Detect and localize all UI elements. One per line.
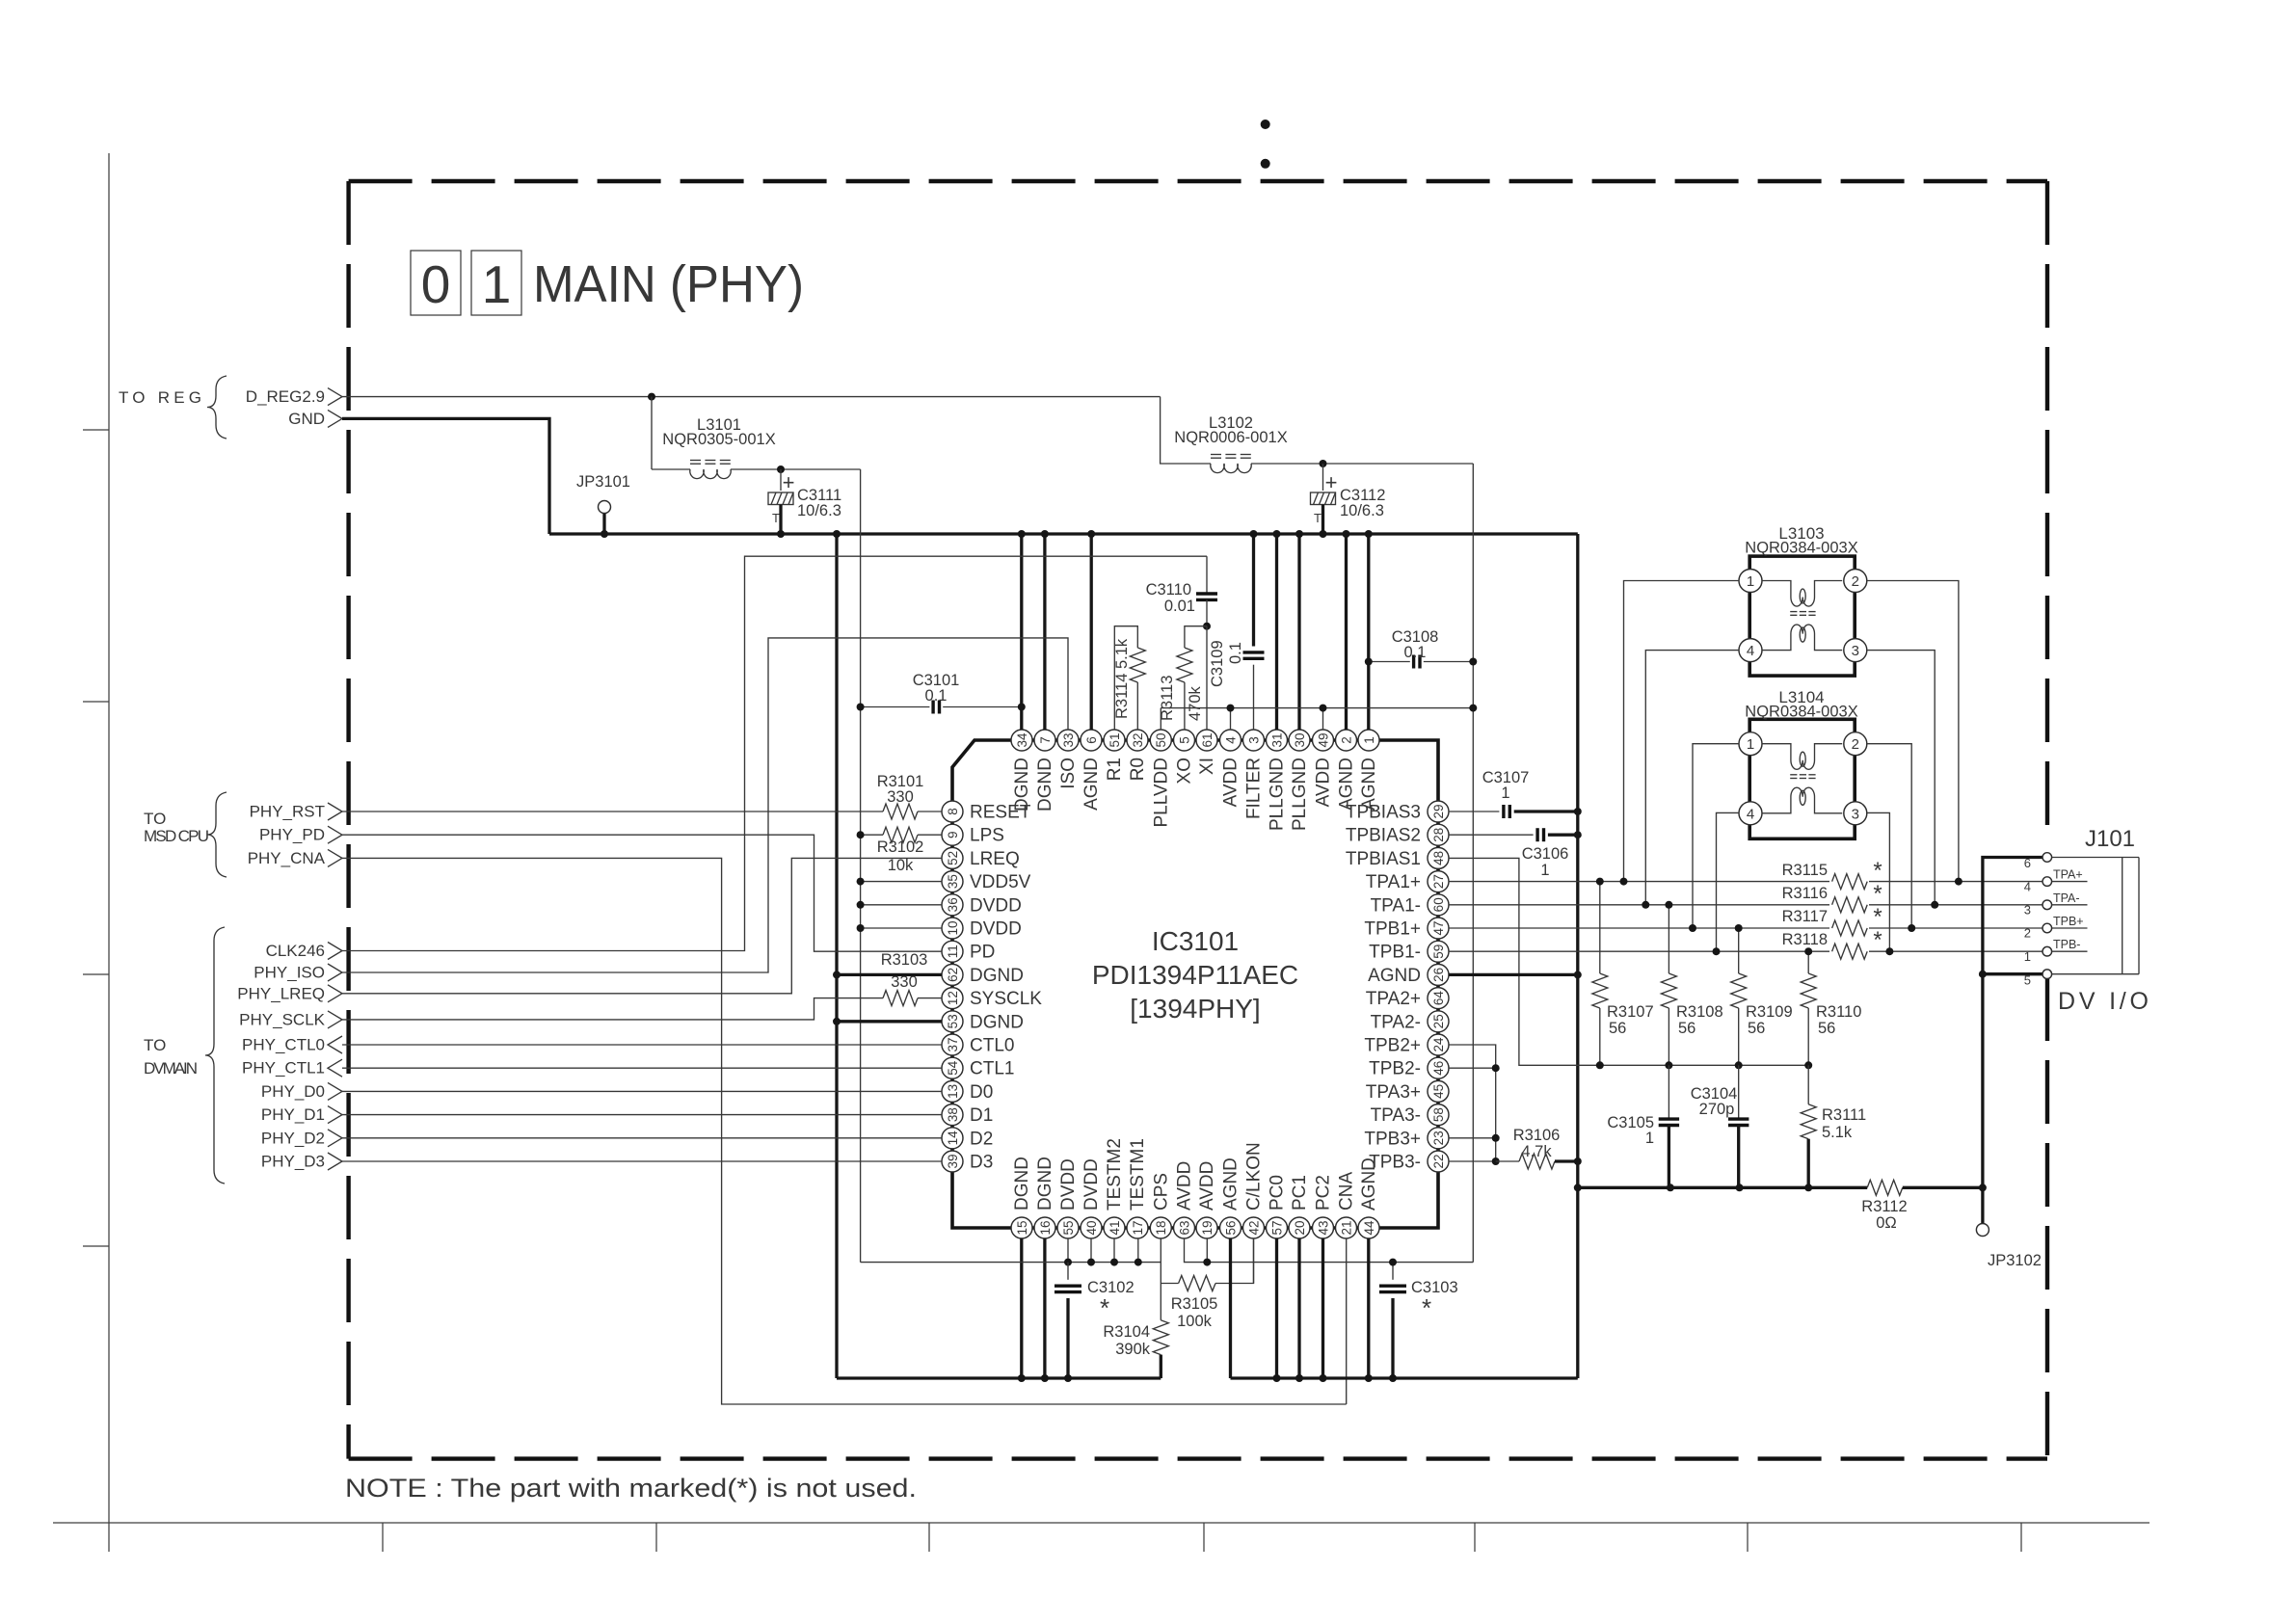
svg-text:33: 33 xyxy=(1061,732,1076,747)
junction pin17 xyxy=(1135,1259,1142,1266)
resistor R3103 330 xyxy=(342,951,942,1020)
junction L3104 pin1 TPB+ xyxy=(1689,924,1696,932)
svg-text:CNA: CNA xyxy=(1337,1172,1357,1211)
svg-text:PC2: PC2 xyxy=(1314,1175,1334,1211)
wire D_REG2.9 rail xyxy=(342,396,1161,398)
wire L3103 pin2 tap xyxy=(1867,581,1959,882)
svg-text:LREQ: LREQ xyxy=(970,849,1020,869)
svg-text:30: 30 xyxy=(1293,732,1307,747)
junction pin26 AGND xyxy=(1574,971,1582,978)
capacitor C3107 1 (TPBIAS3) xyxy=(1449,769,1578,818)
pin 63 AVDD (IC3101 bottom) xyxy=(1174,1161,1195,1238)
svg-text:20: 20 xyxy=(1293,1220,1307,1235)
svg-text:AVDD: AVDD xyxy=(1175,1161,1195,1211)
pin 28 TPBIAS2 (IC3101 right) xyxy=(1346,824,1449,846)
svg-text:D_REG2.9: D_REG2.9 xyxy=(246,387,325,406)
junction D_REG2.9 to L3101 xyxy=(648,393,655,401)
svg-text:AVDD: AVDD xyxy=(1197,1161,1217,1211)
svg-text:DGND: DGND xyxy=(970,966,1024,986)
svg-text:T: T xyxy=(1314,511,1322,525)
svg-text:R3102: R3102 xyxy=(877,838,924,856)
svg-text:AVDD: AVDD xyxy=(1221,758,1241,807)
svg-text:4: 4 xyxy=(1223,736,1238,744)
capacitor C3111 10/6.3 xyxy=(768,469,841,534)
pin 56 AGND (IC3101 bottom) xyxy=(1220,1157,1241,1238)
pin 1 AGND (IC3101 top) xyxy=(1358,730,1379,811)
svg-text:*: * xyxy=(1422,1293,1431,1322)
svg-text:T: T xyxy=(772,511,780,525)
port CLK246 xyxy=(266,942,342,960)
capacitor C3112 10/6.3 xyxy=(1311,464,1386,534)
resistor R3110 56 xyxy=(1801,951,1861,1065)
svg-text:C3103: C3103 xyxy=(1411,1279,1458,1296)
junction shield rail left xyxy=(1574,1184,1582,1191)
pin 9 LPS (IC3101 left) xyxy=(942,824,1004,846)
wire DGND pin53 xyxy=(837,1020,942,1023)
svg-text:R3117: R3117 xyxy=(1782,908,1828,925)
wire PHY_D1 to pin38 xyxy=(342,1114,942,1116)
svg-text:TPB+: TPB+ xyxy=(2053,915,2084,928)
pin 21 CNA (IC3101 bottom) xyxy=(1336,1172,1357,1238)
svg-text:1: 1 xyxy=(1362,736,1376,744)
svg-text:TPB1+: TPB1+ xyxy=(1364,919,1421,940)
svg-text:R3103: R3103 xyxy=(881,951,928,969)
svg-text:3: 3 xyxy=(1246,736,1261,744)
wire DGND bottom rail left xyxy=(837,1376,1161,1379)
svg-text:PHY_ISO: PHY_ISO xyxy=(254,964,325,982)
svg-text:41: 41 xyxy=(1108,1220,1122,1235)
svg-text:21: 21 xyxy=(1339,1220,1353,1235)
svg-text:25: 25 xyxy=(1431,1014,1446,1028)
pin 44 AGND (IC3101 bottom) xyxy=(1358,1157,1379,1238)
svg-text:PLLGND: PLLGND xyxy=(1268,758,1288,831)
svg-text:R3116: R3116 xyxy=(1782,885,1828,902)
wire DGND pin62 xyxy=(837,973,942,976)
wire AGND pin56 drop xyxy=(1229,1238,1232,1378)
svg-text:RESET: RESET xyxy=(970,803,1031,823)
svg-text:R3109: R3109 xyxy=(1746,1003,1793,1021)
svg-text:GND: GND xyxy=(288,410,325,428)
pin 62 DGND (IC3101 left) xyxy=(942,964,1024,986)
svg-text:*: * xyxy=(1873,858,1882,884)
svg-text:58: 58 xyxy=(1431,1107,1446,1122)
svg-text:4.7k: 4.7k xyxy=(1521,1143,1552,1160)
svg-text:23: 23 xyxy=(1431,1131,1446,1145)
port PHY_CTL1 xyxy=(242,1059,342,1078)
junction R3107 bias line xyxy=(1596,1061,1604,1069)
svg-text:R3105: R3105 xyxy=(1171,1295,1218,1313)
wire AGND bottom rail right xyxy=(1231,1376,1578,1379)
svg-text:CLK246: CLK246 xyxy=(266,942,325,960)
pin 49 AVDD (IC3101 top) xyxy=(1313,730,1334,807)
junction pin10 DVDD xyxy=(857,924,865,932)
svg-text:C3110: C3110 xyxy=(1146,581,1191,599)
svg-text:52: 52 xyxy=(946,851,960,865)
svg-text:*: * xyxy=(1100,1293,1109,1322)
port PHY_PD xyxy=(259,826,342,844)
resistor R3108 56 xyxy=(1661,905,1722,1066)
svg-text:17: 17 xyxy=(1131,1220,1145,1235)
svg-text:0.1: 0.1 xyxy=(925,687,948,705)
svg-text:CTL0: CTL0 xyxy=(970,1036,1014,1056)
svg-text:0Ω: 0Ω xyxy=(1876,1214,1897,1232)
junction C3103 rail xyxy=(1389,1374,1397,1382)
junction C3108 pin1 riser xyxy=(1365,658,1373,666)
svg-text:28: 28 xyxy=(1431,828,1446,842)
junction C3102 rail xyxy=(1064,1374,1072,1382)
svg-text:[1394PHY]: [1394PHY] xyxy=(1130,994,1260,1024)
pin 50 PLLVDD (IC3101 top) xyxy=(1150,730,1171,828)
svg-text:56: 56 xyxy=(1609,1020,1626,1037)
svg-text:49: 49 xyxy=(1316,732,1330,747)
svg-text:DVDD: DVDD xyxy=(970,895,1022,916)
svg-text:1: 1 xyxy=(482,254,512,314)
svg-text:R3112: R3112 xyxy=(1861,1198,1907,1215)
pin 26 AGND (IC3101 right) xyxy=(1368,964,1449,986)
svg-text:R3108: R3108 xyxy=(1676,1003,1723,1021)
junction L3103 pin2 TPA+ xyxy=(1955,878,1962,886)
svg-text:AVDD: AVDD xyxy=(1314,758,1334,807)
svg-text:5: 5 xyxy=(2024,973,2031,988)
svg-text:3: 3 xyxy=(1852,643,1859,659)
wire PLLVDD pin50 xyxy=(1160,708,1161,730)
resistor R3111 5.1k xyxy=(1801,1065,1866,1187)
svg-text:2: 2 xyxy=(2024,926,2031,941)
junction AVDD line right xyxy=(1469,705,1477,712)
wire AGND pin1 riser xyxy=(1367,534,1370,730)
svg-text:DGND: DGND xyxy=(1035,758,1055,811)
svg-text:56: 56 xyxy=(1818,1020,1835,1037)
junction pin23 xyxy=(1492,1134,1500,1142)
pin 17 TESTM1 (IC3101 bottom) xyxy=(1127,1138,1148,1238)
wire TPB3- pin22 stub xyxy=(1449,1160,1496,1162)
pin 47 TPB1+ (IC3101 right) xyxy=(1364,918,1449,940)
svg-text:IC3101: IC3101 xyxy=(1152,926,1239,956)
svg-text:C/LKON: C/LKON xyxy=(1244,1142,1265,1211)
pin 24 TPB2+ (IC3101 right) xyxy=(1364,1034,1449,1056)
wire AVDD-PLLVDD line xyxy=(1161,707,1473,709)
wire AVDD vertical distribution xyxy=(1472,464,1474,1263)
svg-text:55: 55 xyxy=(1061,1220,1076,1235)
pin 11 PD (IC3101 left) xyxy=(942,941,995,963)
junction C3103 AVDD line xyxy=(1389,1259,1397,1266)
svg-text:PHY_CNA: PHY_CNA xyxy=(248,849,326,867)
junction pin22 xyxy=(1492,1157,1500,1165)
pin 15 DGND (IC3101 bottom) xyxy=(1011,1157,1032,1238)
svg-text:56: 56 xyxy=(1748,1020,1765,1037)
svg-text:37: 37 xyxy=(946,1037,960,1051)
port PHY_SCLK xyxy=(239,1010,342,1028)
wire VDD5V pin35 xyxy=(861,881,942,883)
pin 6 AGND (IC3101 top) xyxy=(1081,730,1102,811)
svg-text:R0: R0 xyxy=(1128,758,1148,781)
svg-text:PLLVDD: PLLVDD xyxy=(1152,758,1172,828)
svg-text:PLLGND: PLLGND xyxy=(1290,758,1310,831)
svg-text:54: 54 xyxy=(946,1060,960,1076)
svg-text:*: * xyxy=(1873,927,1882,953)
svg-text:J101: J101 xyxy=(2085,826,2135,852)
svg-text:TPBIAS3: TPBIAS3 xyxy=(1346,803,1421,823)
svg-text:TPB2+: TPB2+ xyxy=(1364,1036,1421,1056)
svg-text:D3: D3 xyxy=(970,1153,993,1173)
svg-text:4: 4 xyxy=(2024,880,2031,894)
junction C3111-GND xyxy=(777,530,785,538)
svg-text:TPA+: TPA+ xyxy=(2053,868,2083,882)
svg-text:D2: D2 xyxy=(970,1129,993,1149)
resistor R3116 (*) TPA- xyxy=(1782,881,1882,913)
junction pin6 GND rail xyxy=(1087,530,1095,538)
wire DGND pin7 riser xyxy=(1043,534,1046,730)
svg-text:TO: TO xyxy=(144,1036,166,1054)
pin 7 DGND (IC3101 top) xyxy=(1034,730,1055,811)
svg-text:R3114 5.1k: R3114 5.1k xyxy=(1113,638,1131,719)
svg-text:DGND: DGND xyxy=(970,1012,1024,1032)
wire AVDD pin49 xyxy=(1322,708,1324,730)
svg-text:48: 48 xyxy=(1431,851,1446,865)
pin 36 DVDD (IC3101 left) xyxy=(942,894,1022,917)
port GND xyxy=(288,410,342,428)
pin 35 VDD5V (IC3101 left) xyxy=(942,871,1031,893)
connector J101 DV I/O xyxy=(2024,826,2149,1015)
junction L3104 pin4 TPB- xyxy=(1713,947,1721,955)
label TO MSD CPU xyxy=(144,792,227,877)
svg-text:42: 42 xyxy=(1246,1220,1261,1235)
capacitor C3102 (*) xyxy=(1055,1263,1135,1378)
pin 45 TPA3+ (IC3101 right) xyxy=(1366,1080,1449,1103)
wire GND main vertical xyxy=(835,534,838,1378)
label TO REG xyxy=(119,376,227,439)
junction L3104 pin2 TPB+ xyxy=(1908,924,1915,932)
junction PC0 rail xyxy=(1273,1374,1281,1382)
pin 10 DVDD (IC3101 left) xyxy=(942,918,1022,940)
svg-text:PHY_D0: PHY_D0 xyxy=(261,1082,325,1101)
pin 41 TESTM2 (IC3101 bottom) xyxy=(1104,1138,1125,1238)
wire J101 ground loop xyxy=(1983,858,2042,1188)
junction pin19 xyxy=(1203,1259,1211,1266)
junction pin4 AVDD xyxy=(1227,705,1235,712)
wire DVDD vertical distribution xyxy=(860,469,862,1263)
svg-text:+: + xyxy=(783,470,795,494)
svg-text:46: 46 xyxy=(1431,1061,1446,1076)
wire L3104 pin3 tap xyxy=(1867,812,1890,951)
wire L3104 pin2 tap xyxy=(1867,744,1911,928)
svg-text:PD: PD xyxy=(970,943,995,963)
wire TESTM1 pin17 drop xyxy=(1137,1238,1139,1263)
svg-text:C3106: C3106 xyxy=(1522,845,1569,863)
port PHY_D2 xyxy=(261,1129,342,1147)
capacitor C3105 1 xyxy=(1607,1065,1679,1187)
svg-text:56: 56 xyxy=(1678,1020,1695,1037)
pin 8 RESET (IC3101 left) xyxy=(942,801,1031,823)
transformer L3104 NQR0384-003X common-mode choke xyxy=(1739,688,1867,838)
svg-text:*: * xyxy=(1873,881,1882,907)
svg-text:390k: 390k xyxy=(1115,1341,1151,1358)
junction C3105 shield rail xyxy=(1667,1184,1674,1191)
pin 5 XO (IC3101 top) xyxy=(1174,730,1195,784)
junction C3112-GND xyxy=(1320,530,1327,538)
wire TESTM2 pin41 drop xyxy=(1113,1238,1115,1263)
svg-text:59: 59 xyxy=(1431,945,1446,959)
capacitor C3106 1 (TPBIAS2) xyxy=(1449,828,1578,879)
svg-text:26: 26 xyxy=(1431,968,1446,982)
svg-text:R3115: R3115 xyxy=(1782,862,1828,879)
junction pin15 rail xyxy=(1018,1374,1026,1382)
wire C/LKON pin42 drop xyxy=(1253,1238,1255,1284)
pin 32 R0 (IC3101 top) xyxy=(1127,730,1148,781)
svg-text:4: 4 xyxy=(1747,806,1754,822)
svg-text:0.1: 0.1 xyxy=(1404,644,1427,661)
junction PC2 rail xyxy=(1320,1374,1327,1382)
svg-text:PHY_SCLK: PHY_SCLK xyxy=(239,1010,325,1028)
junction R3110 TPB- xyxy=(1804,947,1812,955)
wire PLLGND pin31 riser xyxy=(1275,534,1278,730)
svg-text:TPA1+: TPA1+ xyxy=(1366,872,1421,892)
svg-text:C3102: C3102 xyxy=(1087,1279,1135,1296)
svg-text:PHY_D1: PHY_D1 xyxy=(261,1105,325,1124)
junction R3107 TPA+ xyxy=(1596,878,1604,886)
svg-text:MSD CPU: MSD CPU xyxy=(144,827,209,845)
svg-text:JP3101: JP3101 xyxy=(576,473,630,491)
pin 2 AGND (IC3101 top) xyxy=(1336,730,1357,811)
wire CLK246 xyxy=(342,556,1207,950)
port PHY_D3 xyxy=(261,1153,342,1171)
pin 58 TPA3- (IC3101 right) xyxy=(1371,1104,1449,1127)
pin 30 PLLGND (IC3101 top) xyxy=(1289,730,1310,831)
svg-text:SYSCLK: SYSCLK xyxy=(970,989,1042,1009)
pin 52 LREQ (IC3101 left) xyxy=(942,847,1020,869)
svg-text:24: 24 xyxy=(1431,1037,1446,1052)
junction PC1 rail xyxy=(1295,1374,1303,1382)
wire AVDD bottom line xyxy=(1185,1238,1474,1263)
svg-text:43: 43 xyxy=(1316,1220,1330,1235)
resistor R3109 56 xyxy=(1731,928,1793,1065)
svg-text:470k: 470k xyxy=(1187,685,1204,721)
jumper JP3102 xyxy=(1976,1187,2042,1269)
svg-text:TPA2-: TPA2- xyxy=(1371,1012,1421,1032)
port PHY_LREQ xyxy=(237,984,342,1002)
svg-text:R1: R1 xyxy=(1105,758,1125,781)
resistor R3113 470k xyxy=(1159,626,1207,730)
svg-text:1: 1 xyxy=(2024,949,2031,964)
wire DVDD pin36 xyxy=(861,904,942,906)
pin 64 TPA2+ (IC3101 right) xyxy=(1366,988,1449,1010)
junction JP3102 shield rail xyxy=(1979,1184,1987,1191)
svg-text:AGND: AGND xyxy=(1368,966,1421,986)
capacitor C3104 270p xyxy=(1691,1065,1749,1187)
svg-text:0.1: 0.1 xyxy=(1227,642,1244,664)
pin 57 PC0 (IC3101 bottom) xyxy=(1267,1175,1288,1238)
wire AGND pin44 drop xyxy=(1367,1238,1370,1378)
svg-text:1: 1 xyxy=(1747,736,1754,753)
junction C3106 AGND xyxy=(1574,831,1582,838)
svg-text:100k: 100k xyxy=(1177,1313,1213,1330)
wire CNA pin21 xyxy=(1346,1238,1348,1404)
wire AGND pin26 xyxy=(1449,973,1578,976)
svg-text:3: 3 xyxy=(2024,903,2031,918)
wire PHY_CNA vertical xyxy=(342,858,1347,1404)
svg-text:R3110: R3110 xyxy=(1816,1003,1861,1021)
svg-text:ISO: ISO xyxy=(1058,758,1079,789)
pin 29 TPBIAS3 (IC3101 right) xyxy=(1346,801,1449,823)
svg-text:1: 1 xyxy=(1501,785,1509,802)
svg-text:2: 2 xyxy=(1339,736,1353,744)
pin 19 AVDD (IC3101 bottom) xyxy=(1196,1161,1217,1238)
svg-text:PHY_RST: PHY_RST xyxy=(250,803,325,821)
svg-text:PHY_D3: PHY_D3 xyxy=(261,1153,325,1171)
svg-text:57: 57 xyxy=(1269,1220,1284,1235)
wire DVDD pin10 xyxy=(861,927,942,929)
svg-text:3: 3 xyxy=(1852,806,1859,822)
svg-text:PHY_CTL0: PHY_CTL0 xyxy=(242,1036,325,1054)
capacitor C3108 0.1 xyxy=(1369,628,1474,669)
junction R3102-DVDD xyxy=(857,831,865,838)
pin 27 TPA1+ (IC3101 right) xyxy=(1366,871,1449,893)
svg-text:DVDD: DVDD xyxy=(1058,1158,1079,1211)
svg-text:10: 10 xyxy=(946,920,960,935)
svg-text:VDD5V: VDD5V xyxy=(970,872,1031,892)
node top reference dot 2 xyxy=(1261,159,1270,169)
wire L3103 pin1 tap xyxy=(1624,581,1740,882)
svg-text:2: 2 xyxy=(1852,573,1859,590)
title block 01 MAIN (PHY) xyxy=(411,251,804,315)
svg-text:D1: D1 xyxy=(970,1105,993,1126)
port PHY_RST xyxy=(250,803,342,821)
svg-text:TPB-: TPB- xyxy=(2053,938,2080,951)
svg-text:PHY_D2: PHY_D2 xyxy=(261,1129,325,1147)
pin 48 TPBIAS1 (IC3101 right) xyxy=(1346,847,1449,869)
svg-text:R3118: R3118 xyxy=(1782,931,1828,948)
wire GND shield rail xyxy=(1578,1186,1867,1189)
wire TPB2- pin46 stub xyxy=(1449,1067,1496,1069)
svg-text:36: 36 xyxy=(946,897,960,912)
junction C3107 AGND xyxy=(1574,808,1582,815)
svg-text:R3106: R3106 xyxy=(1513,1127,1561,1144)
wire XI pin61 xyxy=(1206,626,1208,730)
jumper JP3101 xyxy=(576,473,630,534)
svg-text:R3107: R3107 xyxy=(1607,1003,1654,1021)
svg-text:+: + xyxy=(1325,470,1338,494)
svg-text:39: 39 xyxy=(946,1154,960,1168)
pin 39 D3 (IC3101 left) xyxy=(942,1151,993,1173)
capacitor C3103 (*) xyxy=(1379,1263,1458,1378)
svg-text:10/6.3: 10/6.3 xyxy=(1340,502,1384,519)
junction J101 pin5 xyxy=(1979,971,1987,978)
wire AVDD pin4 xyxy=(1230,708,1232,730)
junction L3103 pin3 TPA- xyxy=(1931,901,1938,909)
svg-text:TPA1-: TPA1- xyxy=(1371,895,1421,916)
svg-text:CPS: CPS xyxy=(1152,1173,1172,1211)
pin 34 DGND (IC3101 top) xyxy=(1011,730,1032,811)
svg-text:NQR0006-001X: NQR0006-001X xyxy=(1174,429,1287,446)
svg-text:27: 27 xyxy=(1431,874,1446,889)
svg-text:NQR0384-003X: NQR0384-003X xyxy=(1745,704,1857,721)
junction C3109 GND rail xyxy=(1250,530,1258,538)
svg-text:*: * xyxy=(1873,904,1882,930)
wire PC2 pin43 drop xyxy=(1322,1238,1324,1378)
junction pin49 AVDD xyxy=(1320,705,1327,712)
pin 12 SYSCLK (IC3101 left) xyxy=(942,988,1042,1010)
resistor R3115 (*) TPA+ xyxy=(1782,858,1882,890)
svg-text:NOTE : The part with marked(*): NOTE : The part with marked(*) is not us… xyxy=(345,1474,917,1503)
junction L3102-C3112 xyxy=(1320,460,1327,467)
svg-text:18: 18 xyxy=(1154,1220,1168,1235)
pin 18 CPS (IC3101 bottom) xyxy=(1150,1173,1171,1238)
junction R3106 AGND xyxy=(1574,1157,1582,1165)
svg-text:TPA3-: TPA3- xyxy=(1371,1105,1421,1126)
svg-text:CTL1: CTL1 xyxy=(970,1059,1014,1079)
svg-text:22: 22 xyxy=(1431,1154,1446,1168)
svg-text:TPB1-: TPB1- xyxy=(1369,943,1421,963)
